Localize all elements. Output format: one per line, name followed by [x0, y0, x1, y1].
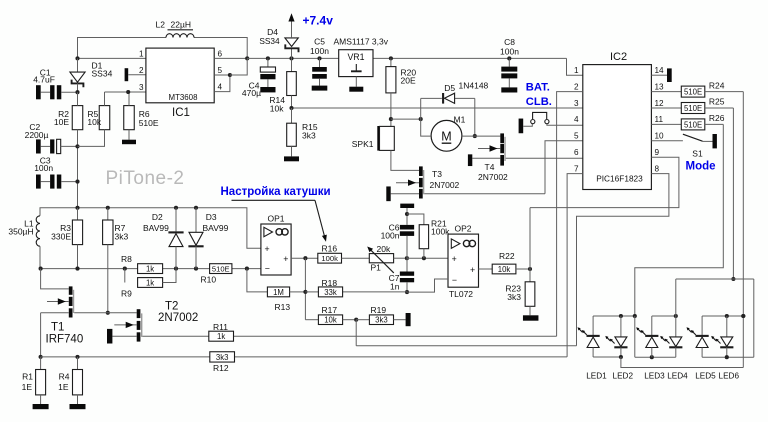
resistor R13 1M	[267, 287, 305, 297]
ground of VR1	[349, 87, 363, 92]
label R7 3k3	[115, 223, 129, 242]
wire T1 source to T2 drain	[74, 312, 137, 314]
svg-text:S1: S1	[692, 149, 703, 159]
label R22	[499, 251, 515, 261]
ground bar of T2	[107, 329, 112, 344]
speaker SPK1	[377, 126, 394, 151]
svg-text:6: 6	[218, 49, 223, 58]
svg-text:OP2: OP2	[454, 224, 471, 234]
svg-text:10E: 10E	[54, 117, 69, 127]
svg-text:20k: 20k	[377, 244, 391, 254]
svg-text:R16: R16	[322, 244, 338, 254]
label Настройка катушки	[221, 186, 331, 198]
label BAT. CLB.	[526, 82, 552, 108]
resistor R3 330E	[72, 208, 82, 269]
svg-text:1N4148: 1N4148	[459, 81, 489, 91]
label AMS1117 3,3v	[334, 37, 389, 47]
svg-text:11: 11	[655, 115, 664, 124]
pin numbers IC2 left	[574, 66, 579, 173]
svg-text:LED3: LED3	[644, 372, 665, 381]
svg-text:100n: 100n	[381, 231, 400, 241]
ground of C4	[260, 87, 275, 92]
svg-text:22µH: 22µH	[171, 20, 192, 30]
svg-text:R11: R11	[213, 322, 228, 332]
label D2 BAV99	[143, 212, 169, 233]
wire OP1 output	[291, 256, 318, 320]
capacitor C2 2200µ	[36, 139, 80, 153]
svg-text:33k: 33k	[324, 288, 337, 297]
svg-text:100n: 100n	[310, 46, 329, 56]
svg-text:13: 13	[655, 82, 665, 91]
label L1 350µH	[8, 219, 33, 237]
label D4 SS34	[259, 27, 280, 46]
LED LED5	[696, 316, 709, 357]
ground of R1	[33, 404, 49, 409]
svg-text:R26: R26	[709, 113, 725, 123]
wire IC2 pin6 rail	[506, 157, 583, 159]
resistor R18 33k	[318, 287, 342, 297]
svg-text:BAT.: BAT.	[526, 82, 550, 94]
svg-text:2: 2	[574, 82, 579, 91]
light arrows LED4	[660, 336, 669, 344]
label OP1	[267, 213, 284, 223]
label R5 10k	[87, 109, 101, 127]
resistor R5 10k	[78, 92, 110, 146]
svg-text:5: 5	[574, 132, 579, 141]
resistor R1 1E	[36, 357, 46, 404]
svg-text:R25: R25	[709, 97, 725, 107]
label C1 4.7uF	[33, 67, 55, 84]
ground of C8	[501, 87, 517, 92]
resistor R12 3k3	[210, 352, 235, 362]
label SPK1	[352, 139, 374, 149]
label R3 330E	[51, 223, 71, 242]
diode D4 SS34 to +7.4v	[285, 13, 299, 60]
wire LED group3 bottom bar	[702, 355, 754, 359]
switch S1 Mode	[651, 134, 717, 148]
label R2 10E	[54, 109, 69, 127]
svg-text:D5: D5	[444, 83, 455, 93]
wire IC1 pin6 to node	[214, 56, 249, 60]
wire RX bottom rail	[39, 267, 261, 271]
wire IC2 pin8 return	[577, 174, 669, 346]
svg-text:R24: R24	[709, 80, 725, 90]
op-amp OP2	[448, 234, 479, 287]
LED LED2	[614, 316, 627, 357]
svg-text:10k: 10k	[270, 104, 284, 114]
svg-text:350µH: 350µH	[8, 227, 33, 237]
resistor R23 3k3	[525, 269, 535, 315]
svg-text:2200µ: 2200µ	[25, 130, 49, 140]
ground of R6	[122, 140, 136, 145]
wire IC2 pin5 rail	[424, 141, 583, 194]
label C6 100n	[381, 223, 400, 241]
ground of R15	[284, 156, 299, 161]
label R4 1E	[58, 372, 70, 393]
switch BAT CLB	[519, 112, 583, 133]
wire 5V rail	[247, 58, 583, 75]
svg-text:IRF740: IRF740	[46, 334, 84, 346]
svg-text:P1: P1	[371, 262, 382, 272]
svg-text:D2: D2	[152, 212, 163, 222]
label C4 470µ	[242, 81, 261, 98]
svg-text:LED1: LED1	[586, 372, 607, 381]
svg-text:10k: 10k	[324, 316, 337, 325]
ground above C6	[400, 204, 414, 225]
wire left rail C1-C2-C3 column	[77, 92, 79, 208]
resistor R19 3k3	[356, 315, 405, 325]
svg-text:2: 2	[139, 66, 144, 75]
label R8	[121, 254, 132, 264]
wire R18 rail to OP2 minus	[305, 279, 448, 292]
svg-text:R4: R4	[59, 372, 70, 382]
svg-text:IC2: IC2	[610, 51, 627, 63]
resistor R9 1k	[125, 269, 176, 288]
svg-text:−: −	[452, 275, 457, 285]
label D3 BAV99	[203, 212, 229, 233]
wire IC2 pin2 vertical	[557, 92, 583, 337]
capacitor C7 1n	[400, 258, 414, 294]
transistor T4 2N7002	[472, 133, 505, 165]
wire IC2 pin9 return	[530, 157, 679, 207]
wire IC1 pin5 pin4 junction	[214, 58, 247, 91]
ground of R4	[70, 404, 86, 409]
wire R12 rail	[41, 355, 568, 359]
wire RX top rail	[40, 206, 261, 249]
svg-text:T3: T3	[432, 169, 442, 179]
svg-text:6: 6	[574, 148, 579, 157]
wire M1 right to T4	[462, 135, 500, 137]
svg-text:T4: T4	[485, 162, 495, 172]
svg-text:510E: 510E	[684, 88, 702, 97]
svg-text:20E: 20E	[401, 75, 416, 85]
svg-text:3k3: 3k3	[115, 232, 129, 242]
svg-text:LED2: LED2	[613, 372, 634, 381]
svg-text:1: 1	[139, 49, 144, 58]
diode D1 SS34	[70, 58, 85, 92]
label Mode	[686, 160, 716, 172]
svg-text:R19: R19	[371, 305, 387, 315]
svg-text:4.7uF: 4.7uF	[33, 75, 55, 85]
svg-text:Настройка катушки: Настройка катушки	[221, 186, 331, 198]
svg-text:1E: 1E	[58, 382, 69, 392]
LED LED4	[669, 316, 682, 357]
wire R24 vertical	[741, 92, 745, 368]
wire M1 left	[421, 119, 431, 136]
capacitor C4 470µ	[260, 56, 275, 87]
svg-text:4: 4	[574, 115, 579, 124]
wire LED group2 top bar	[652, 314, 678, 318]
svg-text:R8: R8	[121, 254, 132, 264]
label D5 1N4148	[444, 81, 488, 93]
svg-text:+: +	[470, 265, 475, 275]
label R23 3k3	[505, 283, 521, 302]
svg-text:+: +	[283, 254, 288, 264]
svg-text:3k3: 3k3	[375, 316, 388, 325]
light arrows LED2	[605, 336, 614, 344]
wire R11 rail	[142, 335, 556, 337]
svg-text:8: 8	[655, 164, 660, 173]
svg-text:3: 3	[139, 83, 144, 92]
svg-text:L2: L2	[156, 20, 166, 30]
svg-text:2N7002: 2N7002	[430, 180, 460, 190]
svg-text:R9: R9	[121, 289, 132, 299]
svg-text:1E: 1E	[22, 382, 33, 392]
resistor R6 510E	[124, 92, 135, 140]
svg-text:3k3: 3k3	[302, 131, 316, 141]
capacitor C8 100n	[501, 56, 517, 87]
svg-text:1k: 1k	[146, 279, 154, 288]
svg-text:7: 7	[574, 164, 579, 173]
light arrows LED3	[636, 327, 645, 335]
label T1 IRF740	[46, 322, 84, 346]
wire to OP2 plus	[405, 256, 448, 260]
resistor R26 510E	[651, 119, 723, 130]
svg-text:100n: 100n	[500, 47, 519, 57]
inductor L2	[166, 34, 194, 38]
light arrows LED6	[711, 336, 720, 344]
svg-text:M1: M1	[454, 115, 466, 125]
wire LED group1 bottom bar	[593, 355, 623, 359]
svg-text:470µ: 470µ	[242, 88, 261, 98]
resistor R25 510E	[651, 103, 733, 114]
label M1	[454, 115, 466, 125]
svg-text:R18: R18	[322, 278, 338, 288]
svg-text:AMS1117 3,3v: AMS1117 3,3v	[334, 37, 389, 47]
LED LED6	[720, 316, 733, 357]
svg-text:R12: R12	[213, 363, 229, 373]
wire R20 node to D5 loop	[391, 117, 423, 121]
resistor R2 10E	[72, 106, 83, 130]
svg-text:CLB.: CLB.	[526, 96, 552, 108]
resistor R7 3k3	[103, 208, 113, 315]
svg-text:1: 1	[574, 66, 579, 75]
wire IC1 pin3 to R5 R6	[105, 90, 146, 94]
label C2 2200µ	[25, 122, 49, 140]
labels LED1-LED6	[586, 372, 739, 381]
label D1 SS34	[92, 61, 113, 79]
wire R25 to LED group2 and group3	[676, 108, 754, 357]
svg-text:510E: 510E	[212, 265, 230, 274]
svg-text:5: 5	[218, 66, 223, 75]
wire OP1 feedback 1M	[247, 269, 268, 292]
potentiometer P1 20k	[367, 247, 407, 273]
svg-text:510E: 510E	[684, 120, 702, 129]
ground bar of T3	[386, 186, 390, 201]
svg-text:3k3: 3k3	[507, 292, 521, 302]
wire pin8 to R17 R19 node	[356, 320, 576, 346]
svg-text:IC1: IC1	[172, 107, 190, 119]
svg-text:100k: 100k	[321, 254, 338, 263]
svg-text:T2: T2	[165, 301, 178, 313]
svg-text:+: +	[452, 254, 457, 264]
resistor R10 510E	[210, 264, 232, 274]
IC IC2 PIC16F1823 box	[583, 65, 652, 190]
wire LED group1 bottom to R24	[621, 357, 743, 368]
motor M1	[431, 120, 462, 151]
label R9	[121, 289, 132, 299]
wire OP2 output	[479, 268, 493, 270]
wire D5 loop top	[421, 97, 475, 99]
label IC2	[610, 51, 627, 63]
svg-text:330E: 330E	[51, 232, 71, 242]
svg-text:M: M	[441, 130, 451, 144]
diode D3 BAV99	[188, 208, 203, 269]
label IC1	[172, 107, 190, 119]
svg-text:R10: R10	[201, 274, 217, 284]
inductor L1 350µH	[36, 216, 40, 269]
svg-text:4: 4	[218, 83, 223, 92]
wire chain group1 top to group2 bottom	[634, 316, 636, 357]
transistor T1 IRF740	[41, 269, 75, 318]
svg-text:BAV99: BAV99	[203, 223, 229, 233]
svg-text:510E: 510E	[139, 118, 159, 128]
wire IC1 pin1	[75, 56, 145, 60]
svg-text:2N7002: 2N7002	[478, 172, 508, 182]
wire T1 source down	[39, 313, 43, 359]
IC1 MT3608 box	[146, 48, 214, 103]
resistor R21 100k	[407, 214, 429, 258]
resistor R4 1E	[73, 357, 83, 404]
svg-text:10: 10	[655, 132, 665, 141]
ground of R23	[523, 315, 539, 320]
watermark PiTone-2	[106, 168, 185, 189]
svg-text:510E: 510E	[684, 104, 702, 113]
svg-text:1k: 1k	[146, 265, 154, 274]
label C8 100n	[500, 37, 519, 57]
label R19	[371, 305, 387, 315]
label L2 22µH	[156, 20, 194, 30]
resistor R15 3k3	[287, 108, 297, 156]
svg-text:10k: 10k	[498, 265, 511, 274]
capacitor C3 100n	[36, 175, 80, 189]
svg-text:C8: C8	[504, 37, 515, 47]
op-amp OP1	[261, 224, 291, 275]
svg-text:LED6: LED6	[719, 372, 740, 381]
svg-text:1M: 1M	[273, 288, 284, 297]
label R11	[213, 322, 228, 332]
label C3 100n	[34, 156, 53, 174]
diode D5 1N4148	[443, 93, 455, 104]
svg-text:BAV99: BAV99	[143, 223, 169, 233]
label R1 1E	[22, 372, 34, 393]
label R14 10k	[269, 95, 285, 114]
svg-text:100k: 100k	[431, 226, 450, 236]
svg-text:10k: 10k	[87, 117, 101, 127]
svg-text:MT3608: MT3608	[169, 93, 199, 102]
svg-text:PIC16F1823: PIC16F1823	[596, 174, 643, 184]
resistor R8 1k	[138, 264, 163, 274]
svg-text:14: 14	[655, 66, 665, 75]
pin numbers IC1	[139, 49, 223, 92]
label R13	[275, 302, 291, 312]
terminal bar of R19	[406, 313, 411, 326]
svg-text:R17: R17	[322, 305, 338, 315]
svg-text:+: +	[265, 244, 270, 254]
pin numbers IC2 right	[655, 66, 665, 173]
svg-text:TL072: TL072	[449, 289, 473, 299]
diode D2 BAV99	[168, 208, 183, 269]
resistor R16 100k	[318, 253, 370, 263]
svg-text:SPK1: SPK1	[352, 139, 374, 149]
svg-text:R1: R1	[22, 372, 33, 382]
label R10	[201, 274, 217, 284]
terminal bar IC2 pin14	[651, 68, 671, 82]
wire R26 to LED group1 top	[635, 124, 724, 316]
wire battery+ top rail to L2 and IC1 pin1 node	[78, 38, 248, 59]
wire pin3 rail	[289, 106, 582, 110]
svg-text:12: 12	[655, 99, 665, 108]
label 20k P1	[371, 244, 391, 272]
wire R22 node up to pin9 rail	[529, 208, 531, 269]
label T3 2N7002	[430, 169, 460, 190]
svg-text:SS34: SS34	[92, 69, 113, 79]
light arrows LED1	[578, 327, 587, 335]
svg-text:R22: R22	[499, 251, 515, 261]
LED LED3	[645, 316, 658, 357]
transistor T3 2N7002	[391, 150, 425, 198]
voltage regulator VR1 AMS1117	[339, 50, 373, 87]
arrow to P1	[232, 200, 327, 242]
label R20 20E	[401, 67, 417, 85]
wire LED group2 bottom bar	[635, 355, 676, 359]
svg-text:Mode: Mode	[686, 160, 716, 172]
label C7 1n	[389, 273, 400, 292]
wire D5 loop left	[420, 98, 422, 119]
svg-text:T1: T1	[51, 322, 64, 334]
label R15 3k3	[302, 122, 318, 140]
svg-text:D3: D3	[206, 212, 217, 222]
svg-text:R13: R13	[275, 302, 291, 312]
resistor R11 1k	[209, 331, 234, 341]
svg-text:OP1: OP1	[267, 213, 284, 223]
svg-text:3k3: 3k3	[216, 353, 229, 362]
label R18	[322, 278, 338, 288]
svg-text:+7.4v: +7.4v	[303, 14, 334, 28]
resistor R17 10k	[318, 315, 358, 325]
resistor R24 510E	[651, 86, 743, 97]
resistor R22 10k	[492, 264, 532, 274]
label R25	[709, 97, 725, 107]
svg-text:9: 9	[655, 148, 660, 157]
resistor R20 20E	[386, 56, 396, 126]
label R17	[322, 305, 338, 315]
terminal bar IC1 pin2	[125, 68, 146, 81]
light arrows LED5	[687, 327, 696, 335]
LED LED1	[587, 316, 600, 357]
label R6 510E	[139, 109, 159, 128]
wire IC2 pin7 vertical	[567, 174, 583, 357]
label +7.4v	[303, 14, 334, 28]
svg-text:1n: 1n	[390, 282, 400, 292]
transistor T2 2N7002	[112, 309, 142, 341]
capacitor C1 4.7uF	[36, 85, 80, 99]
capacitor C6 100n	[400, 212, 414, 258]
label R24	[709, 80, 725, 90]
svg-text:SS34: SS34	[259, 36, 280, 46]
label R12	[213, 363, 229, 373]
wire LED group3 top bar	[702, 314, 745, 318]
svg-text:2N7002: 2N7002	[158, 312, 198, 324]
capacitor C5 100n	[312, 56, 327, 85]
ground bar of T4	[468, 154, 472, 166]
label S1	[692, 149, 703, 159]
label R21 100k	[431, 218, 450, 236]
svg-text:LED5: LED5	[695, 372, 716, 381]
wire LED group1 top bar	[593, 314, 637, 318]
label R26	[709, 113, 725, 123]
svg-text:100n: 100n	[34, 163, 53, 173]
